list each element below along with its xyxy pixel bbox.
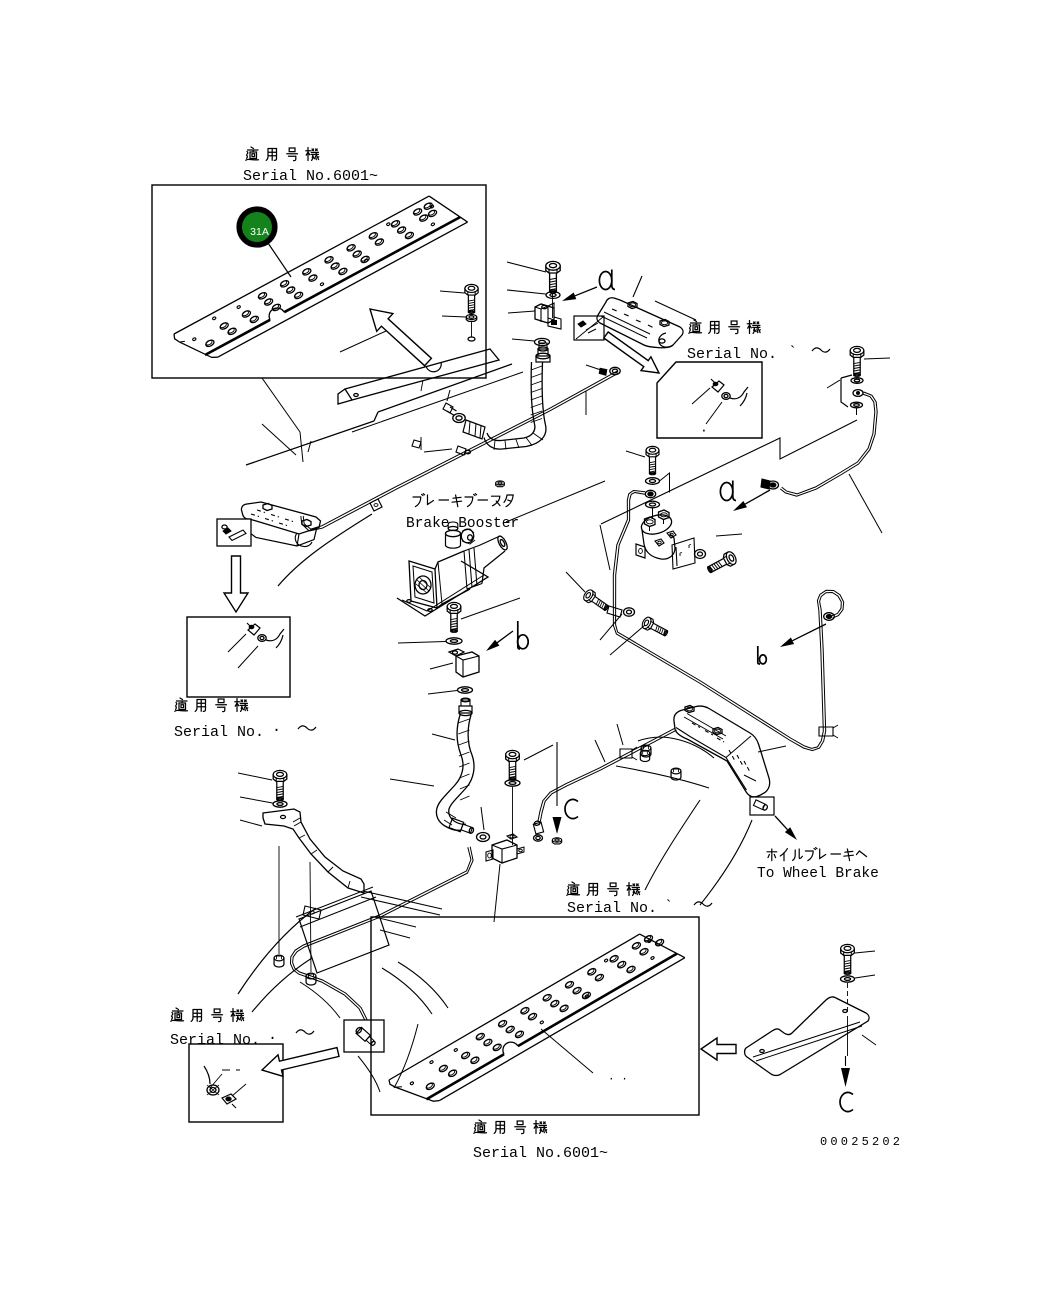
leaders (in box ML) (228, 634, 258, 668)
letter b (right) + arrow (758, 624, 826, 664)
nut cyl (near clamp) (641, 745, 651, 757)
axis lines (bl) (279, 846, 311, 972)
bolt c (center) (506, 750, 520, 780)
nut cyl (rear 1) (640, 750, 649, 761)
clamp (pipe b upper) (607, 606, 622, 617)
arrow c (down) (841, 1056, 850, 1087)
washer (under bolt) (546, 292, 560, 299)
clamp (pipe front) (620, 747, 637, 760)
swirl arcs (bottom) (238, 908, 448, 1092)
arrow b-left + letter (486, 621, 528, 651)
inspection box (cover plate end) (574, 316, 604, 340)
mount bracket (left) (241, 502, 320, 547)
bolt (left low 2) (640, 616, 669, 639)
washer (left low) (624, 608, 635, 616)
leaders (left low) (566, 572, 645, 655)
leader (rear plate) (758, 746, 786, 752)
brake booster assembly (397, 522, 509, 616)
label: serial range (top left) (243, 147, 378, 185)
leader to P1 end (586, 365, 604, 371)
washer (valve 1) (646, 478, 660, 485)
washer br (841, 976, 855, 982)
svg-text:31A: 31A (250, 226, 269, 238)
pipe to front (lower) (533, 728, 677, 841)
hex bolt (rear plate 2) (713, 728, 722, 735)
fender arc (left) (278, 514, 372, 586)
brake valve assembly (636, 510, 676, 559)
leaders (box a) (692, 388, 722, 438)
svg-text:·: · (700, 423, 708, 438)
hose fitting (top) (536, 343, 550, 362)
leader from washer br (855, 975, 875, 978)
leader to bolt bl (238, 773, 272, 780)
sensor bracket (below) (486, 834, 524, 863)
cover plate (upper) (597, 298, 683, 348)
fitting bits (below elbow) (421, 437, 471, 455)
leader to washer bl (240, 797, 273, 803)
svg-text:· ·: · · (608, 1074, 628, 1086)
leader to washer2 (512, 339, 535, 341)
arrow a-left (562, 287, 597, 301)
leader from booster (506, 481, 605, 522)
hollow arrow (down to detail) (224, 556, 248, 612)
inspection box (on bracket) (217, 519, 251, 546)
bolt (pipe a) (850, 346, 864, 376)
eye fitting (pipe b end) (645, 490, 655, 497)
leader to valve bolt (626, 451, 645, 457)
washer c (505, 780, 520, 786)
leader lines (chassis) (262, 331, 386, 455)
leader from bolt br (855, 951, 875, 953)
small box (pipe c end) (344, 1020, 384, 1052)
shim plate (right of valve) (672, 538, 695, 569)
leader from bolt a (864, 358, 890, 359)
bolt (left of a) (465, 284, 478, 313)
elbow fitting (hose end) (443, 403, 485, 439)
detail box 2 (bottom plate) (371, 917, 699, 1115)
letter c (bottom right) (840, 1092, 853, 1111)
frame rail edge (246, 364, 523, 465)
tail lines (top-left of box2) (361, 891, 442, 938)
axis line (bolt c) (512, 787, 514, 845)
nut cyl (rear 2) (671, 768, 681, 780)
svg-text:Serial No.: Serial No. (170, 1032, 260, 1049)
svg-text:00025202: 00025202 (820, 1135, 903, 1149)
brake hose (lower, braided) (436, 715, 474, 830)
fitting box (wheel brake) (750, 797, 774, 815)
bolt (under booster) (447, 602, 461, 632)
hex bolt (rear plate 1) (685, 706, 694, 713)
leader to bracket (262, 378, 303, 462)
callout circle 31A (239, 209, 275, 245)
mud bracket (bottom-left) (263, 809, 364, 893)
rear cover plate (674, 706, 770, 797)
washer small (468, 322, 475, 341)
hose 2 end fitting (449, 818, 475, 836)
washer (hose end) (477, 833, 490, 842)
detail box (bottom-left) (189, 1044, 283, 1122)
leader to nut (442, 316, 466, 317)
washer (right of valve) (695, 550, 706, 559)
leader from bolt (461, 598, 520, 619)
washer (flat, under bolt) (446, 638, 462, 644)
deck pad (bottom-left) (296, 887, 389, 973)
leader to hose2 (390, 734, 484, 830)
clamp on P1 (370, 499, 382, 511)
bolt (above valve) (646, 446, 659, 474)
nut cyl bl1 (274, 955, 284, 967)
leader to bolt (507, 262, 546, 272)
washer (under block) (458, 687, 473, 693)
svg-text:`: ` (664, 898, 673, 915)
svg-text:Serial No.: Serial No. (687, 346, 777, 363)
clamp (pipe b lower) (819, 725, 838, 738)
svg-text:·: · (272, 722, 281, 739)
small bolt (left low) (582, 588, 611, 613)
pipe P1 (long, to left bracket) (301, 367, 620, 531)
hollow arrow (left, near box2) (701, 1038, 736, 1060)
letter a (left instance) (599, 270, 615, 290)
step plate 31A (perforated) (174, 196, 468, 357)
detail box (mid-left) (187, 617, 290, 697)
leader to clamp-b (600, 525, 610, 570)
leader (cover br) (862, 1035, 876, 1045)
clamp block (b target) (449, 649, 479, 677)
letter c (center) + arrow (553, 742, 579, 834)
label: serial range (right of cover) (687, 320, 830, 363)
label: serial range (below box2) (473, 1120, 608, 1162)
fender arcs (rear) (616, 737, 752, 905)
tiny clamp mark (412, 440, 421, 448)
axis dashed (br) (847, 983, 849, 1056)
part number (820, 1135, 903, 1149)
leader (plate2) (541, 1029, 628, 1086)
cover plate (bottom right) (745, 997, 869, 1076)
pipe a (761, 392, 877, 496)
leader to washerb (428, 691, 457, 695)
leader to washer (398, 642, 446, 644)
frame rib ticks (308, 390, 450, 452)
washer (valve 2) (646, 501, 660, 519)
fitting: bleeder valve (in box) (247, 623, 284, 648)
label: serial range (above box2) (567, 882, 712, 917)
frame step line (right) (601, 420, 857, 524)
label: brake booster (406, 494, 519, 532)
nut (under c arrow) (552, 838, 561, 844)
leader to washer (507, 290, 546, 294)
svg-text:Serial No.: Serial No. (174, 724, 264, 741)
svg-text:`: ` (788, 344, 797, 361)
clamp block (pipe clamp) (535, 294, 561, 329)
clamp bl (303, 906, 321, 919)
svg-text:Serial No.: Serial No. (567, 900, 657, 917)
arrow to wheel brake (775, 816, 797, 840)
bracket a (841, 375, 863, 415)
leader below P1 (585, 391, 587, 415)
leader from 31A (268, 243, 291, 277)
washer 2 (below clamp) (535, 338, 550, 345)
leader to bolt lr (716, 534, 742, 536)
washer bl (273, 801, 287, 807)
leader below sensor (494, 864, 500, 922)
leader to clamp block (430, 663, 453, 669)
fittings (box bl) (204, 1066, 246, 1108)
svg-text:To Wheel Brake: To Wheel Brake (757, 866, 879, 882)
label: serial range (mid-left) (174, 698, 316, 741)
leader (cover to label) (655, 301, 696, 320)
hollow arrow (into cover area) (604, 332, 659, 373)
leader to bolt c (524, 745, 553, 760)
label: to wheel brake (757, 848, 879, 882)
leader L (valve washer) (660, 473, 670, 493)
hollow arrow (bottom-left) (262, 1048, 339, 1077)
bolt (bottom-left) (273, 770, 287, 800)
leader to bolt2 (440, 291, 465, 293)
svg-text:Serial No.6001~: Serial No.6001~ (243, 168, 378, 185)
nut cyl bl2 (306, 973, 316, 985)
bolt (top, with clamp) (546, 261, 560, 293)
leader to pipe a (849, 474, 882, 533)
label: serial range (bottom-left) (170, 1008, 314, 1049)
hose 2 fitting top (459, 698, 472, 715)
svg-text:Brake Booster: Brake Booster (406, 516, 519, 532)
pipe b (valve to hook) (613, 491, 843, 751)
step plate (bottom, perforated) (389, 934, 685, 1101)
leader to bracket bl (240, 820, 262, 826)
letter a (right) + arrow (720, 481, 770, 512)
bolt (bottom right) (841, 944, 855, 974)
detail box: step plate 31A (152, 185, 486, 378)
nut (under bolt2) (466, 315, 476, 322)
detail box a (657, 362, 762, 438)
bolt (lower right of valve) (705, 550, 738, 576)
svg-text:Serial No.6001~: Serial No.6001~ (473, 1145, 608, 1162)
leader to bracket a (827, 380, 840, 388)
chassis plate A (notched) (338, 349, 499, 404)
fitting: bleeder (box a) (711, 379, 748, 406)
pipe c (to lower-left box) (290, 847, 473, 1052)
nut (under hose bend) (496, 481, 505, 487)
leaders (pipe front) (595, 724, 623, 762)
brake hose (upper, braided) (484, 362, 546, 450)
leader to clamp (508, 311, 535, 313)
leader (cover to top) (633, 276, 642, 297)
hollow arrow (up-left, to plate box) (370, 309, 431, 366)
